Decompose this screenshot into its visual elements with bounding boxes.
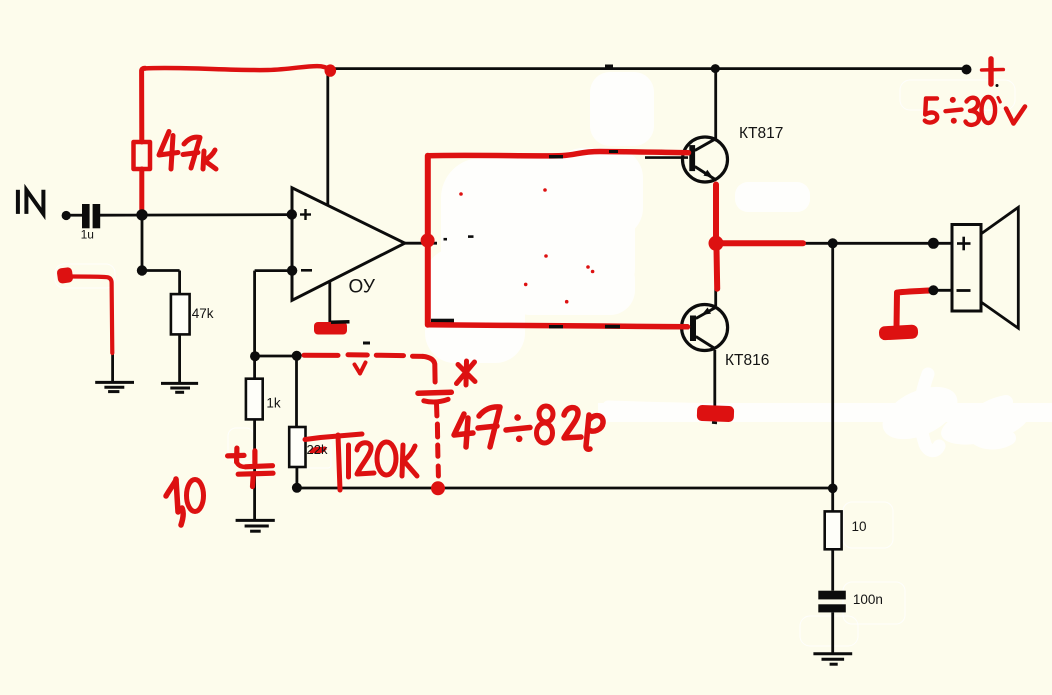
svg-text:1k: 1k — [266, 396, 281, 411]
svg-text:22k: 22k — [307, 442, 328, 457]
svg-text:ОУ: ОУ — [349, 277, 376, 298]
svg-text:100n: 100n — [853, 592, 883, 607]
svg-text:КТ817: КТ817 — [739, 125, 783, 142]
svg-text:КТ816: КТ816 — [725, 352, 769, 369]
svg-text:10: 10 — [852, 519, 867, 534]
svg-text:47k: 47k — [192, 306, 214, 321]
svg-text:1u: 1u — [81, 228, 94, 242]
